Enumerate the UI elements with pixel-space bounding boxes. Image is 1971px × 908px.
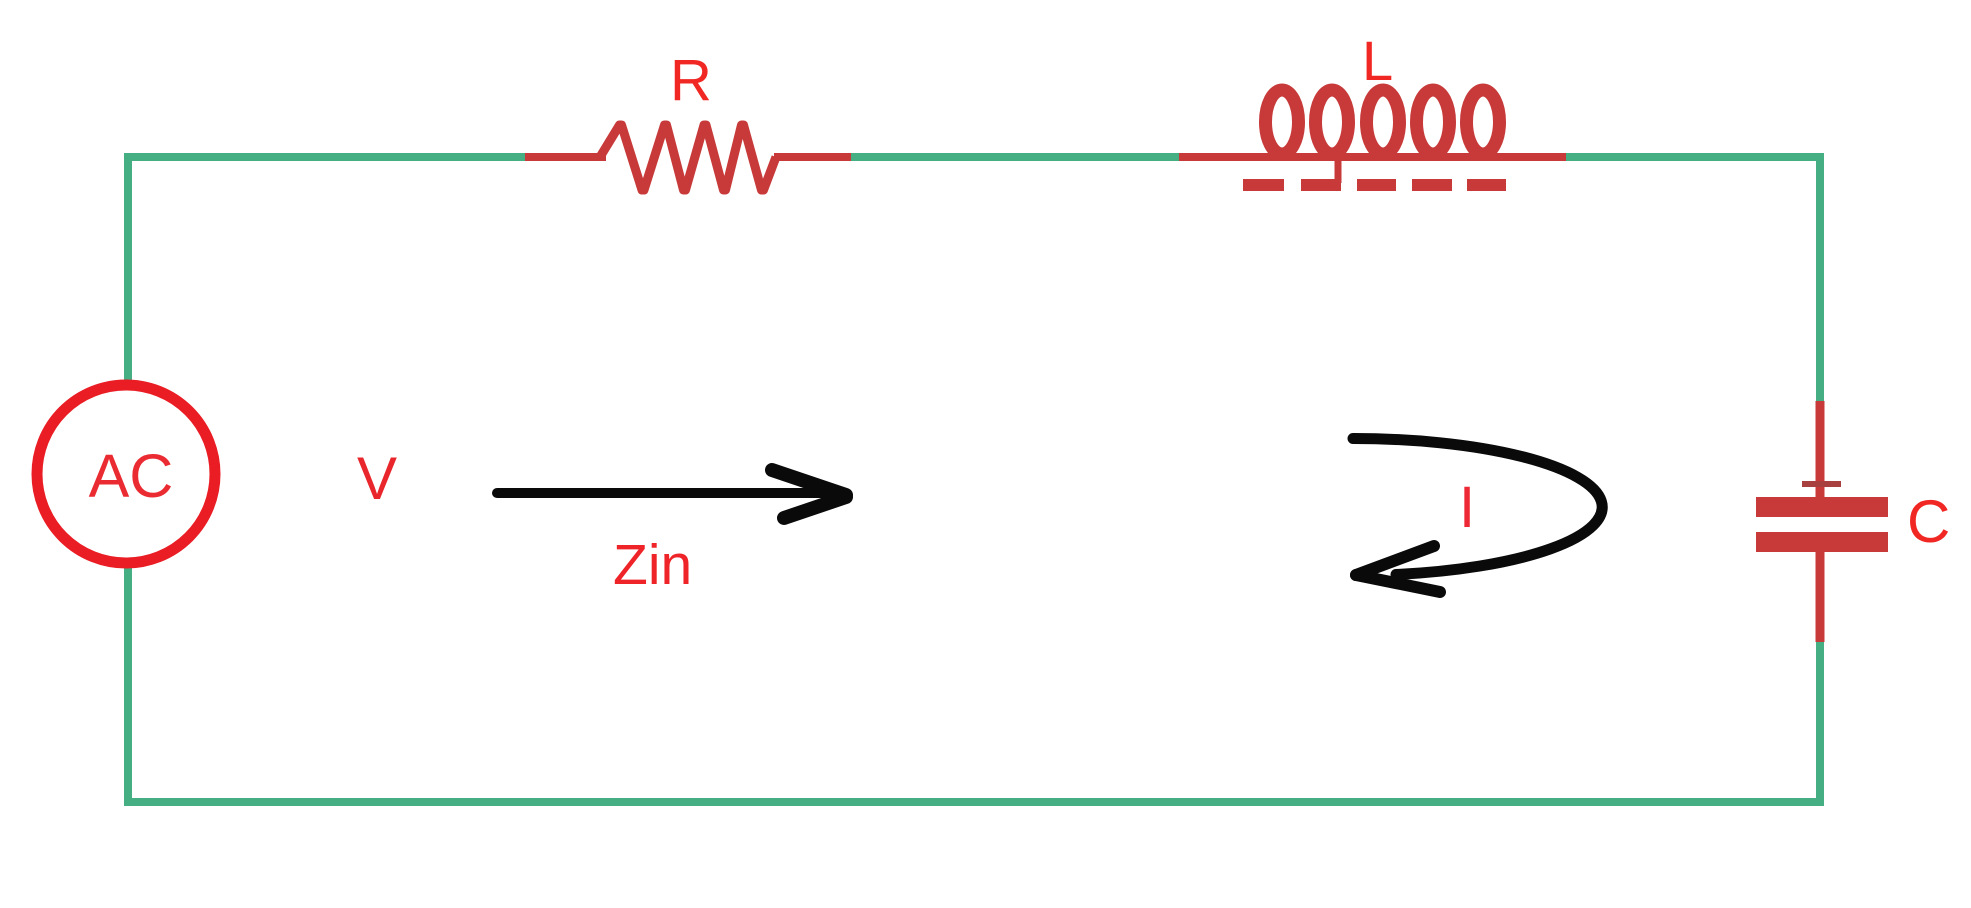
resistor R left lead wire: [525, 153, 606, 161]
Zin arrowhead lower barb: [784, 497, 846, 518]
resistor R right lead wire: [774, 153, 851, 161]
svg-text:AC: AC: [89, 442, 174, 510]
svg-text:Zin: Zin: [613, 533, 692, 597]
inductor L core dash 2: [1301, 179, 1341, 191]
svg-text:L: L: [1362, 29, 1393, 92]
svg-text:V: V: [357, 445, 397, 512]
inductor L core dash 3: [1357, 179, 1396, 191]
wire: top side, right green segment: [1562, 153, 1824, 161]
svg-text:I: I: [1459, 475, 1475, 540]
AC source V1: [37, 385, 215, 563]
inductor L coil loop 1: [1266, 90, 1299, 154]
arrow Zin (input impedance direction): [497, 470, 846, 518]
Zin arrowhead upper barb: [772, 470, 846, 495]
svg-text:C: C: [1907, 488, 1950, 555]
loop current arrow I: [1353, 438, 1602, 592]
inductor L coil loop 2: [1316, 90, 1349, 154]
wire: left side, lower green segment: [124, 567, 132, 806]
capacitor C top lead wire: [1816, 401, 1825, 498]
capacitor C top plate: [1756, 497, 1888, 517]
resistor R zigzag body: [600, 125, 776, 190]
capacitor C bottom plate: [1756, 532, 1888, 552]
current loop arrowhead lower barb: [1356, 575, 1440, 592]
capacitor C: [1756, 401, 1888, 642]
inductor L base wire: [1262, 153, 1503, 161]
wire: top side, left green segment: [124, 153, 528, 161]
current loop arrowhead upper barb: [1356, 546, 1434, 575]
current loop arc: [1353, 438, 1602, 574]
capacitor C bottom lead wire: [1816, 552, 1825, 642]
inductor L right lead wire: [1503, 153, 1566, 161]
wire: top side, middle green segment: [848, 153, 1182, 161]
inductor L: [1179, 90, 1566, 185]
capacitor C polarity plus tick: [1802, 481, 1841, 487]
inductor L core dash 4: [1412, 179, 1452, 191]
wire: right side, upper green segment: [1816, 153, 1824, 403]
wire: bottom side: [124, 798, 1824, 806]
resistor R: [525, 125, 851, 190]
inductor L tail stroke: [1335, 160, 1342, 183]
wire: left side, upper green segment: [124, 153, 132, 381]
inductor L coil loop 5: [1467, 90, 1500, 154]
inductor L left lead wire: [1179, 153, 1262, 161]
inductor L core dash 5: [1467, 179, 1506, 191]
svg-text:R: R: [670, 48, 712, 113]
inductor L coil loop 3: [1367, 90, 1400, 154]
Zin arrow shaft: [497, 488, 830, 498]
inductor L coil loop 4: [1417, 90, 1450, 154]
inductor L core dash 1: [1243, 179, 1284, 191]
wire: right side, lower green segment: [1816, 640, 1824, 806]
